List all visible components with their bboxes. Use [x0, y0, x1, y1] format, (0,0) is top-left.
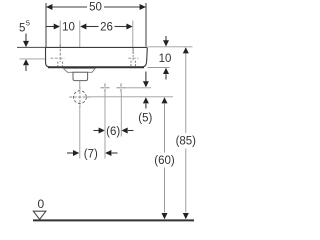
- dim 5.5 up arrow head: [23, 59, 29, 65]
- dim (5): up arrow head: [143, 97, 149, 103]
- hole 1 cross bar: [51, 57, 65, 59]
- dim (85): down arrow head: [183, 213, 189, 219]
- dim (7): left arrow head: [73, 150, 79, 156]
- dim (6): right arrow head: [122, 128, 128, 134]
- svg-text:50: 50: [89, 2, 102, 14]
- fixing cross right: [117, 83, 126, 92]
- dim (60): line upper: [164, 104, 166, 153]
- dim (5): down arrow head: [143, 81, 149, 87]
- dim 5.5 up arrow shaft: [25, 66, 27, 72]
- dim 10 right: down arrow shaft: [165, 36, 167, 41]
- dim (7): right arrow head: [105, 150, 111, 156]
- trap cup: [73, 72, 88, 80]
- floor line: [33, 219, 194, 221]
- svg-text:26: 26: [100, 22, 113, 34]
- dim (6): left arrow shaft: [94, 130, 100, 132]
- washbasin bottom thick edge: [48, 66, 144, 68]
- dim (5): down arrow shaft: [145, 72, 147, 82]
- dim 50 left arrow: [46, 4, 52, 10]
- hole centre extension line left (5.5 lower line): [20, 58, 51, 60]
- dim 10 right: down arrow head: [163, 40, 169, 46]
- extension line x46: [45, 3, 47, 47]
- hole 1 hidden sides: [57, 62, 59, 67]
- dim (60): down arrow head: [162, 213, 168, 219]
- svg-text:(7): (7): [84, 148, 98, 160]
- extension line x146: [145, 3, 147, 47]
- dim 26 line right segment: [115, 26, 127, 28]
- svg-text:5: 5: [26, 19, 30, 28]
- fixing cross left: [101, 83, 110, 92]
- dim 5.5 down arrow head: [23, 41, 29, 47]
- svg-text:0: 0: [37, 197, 44, 211]
- washbasin outline: [46, 47, 148, 67]
- cross downline x105: [104, 92, 106, 158]
- dim 26 line left segment: [86, 26, 98, 28]
- datum triangle: [33, 211, 46, 219]
- dim (85): up arrow head: [183, 47, 189, 53]
- basin top extension line left: [17, 46, 46, 48]
- dim 10 right: top extension line: [148, 46, 193, 48]
- svg-text:(60): (60): [154, 155, 175, 167]
- dim 26 left arrow head: [80, 24, 86, 30]
- cross downline x121: [120, 92, 122, 136]
- svg-text:10: 10: [62, 22, 75, 34]
- dim (85): line upper: [185, 54, 187, 133]
- svg-text:10: 10: [159, 53, 172, 65]
- svg-text:5: 5: [19, 22, 25, 34]
- circle row extension line to right: [88, 96, 173, 98]
- dim (85): line lower: [185, 149, 187, 213]
- dim (6): right arrow shaft: [128, 130, 134, 132]
- drain circle (dashed): [74, 91, 87, 104]
- extension line x80 (tap/drain axis, full): [79, 21, 81, 90]
- dim 50 right arrow: [140, 4, 146, 10]
- drain circle h centerline: [69, 96, 90, 98]
- dim 10 right: bottom extension line: [148, 67, 170, 69]
- dim 50 line right segment: [104, 6, 146, 8]
- dim 10 left arrow shaft: [47, 26, 55, 28]
- extension line x60 upper: [59, 21, 61, 48]
- dim 50 line left segment: [46, 6, 87, 8]
- svg-text:(5): (5): [138, 113, 152, 125]
- dim (60): line lower: [164, 168, 166, 213]
- dim 10 left arrow head: [54, 24, 60, 30]
- cross row extension line to right: [125, 87, 151, 89]
- trap flange: [64, 68, 96, 72]
- svg-text:(6): (6): [106, 126, 120, 138]
- dim 5.5 down arrow shaft: [25, 34, 27, 42]
- svg-text:(85): (85): [176, 136, 197, 148]
- hole 2 hidden sides: [130, 61, 132, 67]
- dim (5): up arrow shaft: [145, 104, 147, 109]
- dim 26 right arrow head: [126, 24, 132, 30]
- dim 10 right: up arrow head: [163, 68, 169, 74]
- drain circle v centerline: [79, 87, 81, 108]
- dim (6): left arrow head: [99, 128, 105, 134]
- hole 2 cross vertical dashes: [132, 55, 134, 62]
- hole 2 cross bar: [128, 57, 138, 59]
- dim 10 right: up arrow shaft: [165, 74, 167, 79]
- hole 1 hidden centerline (dashed): [59, 45, 61, 63]
- dim (7): right arrow shaft: [112, 152, 118, 154]
- extension line x132.8: [132, 21, 134, 55]
- dim (7): left arrow shaft: [67, 152, 74, 154]
- dim (60): up arrow head: [162, 97, 168, 103]
- hole 2 centerline upper (dark): [132, 48, 134, 54]
